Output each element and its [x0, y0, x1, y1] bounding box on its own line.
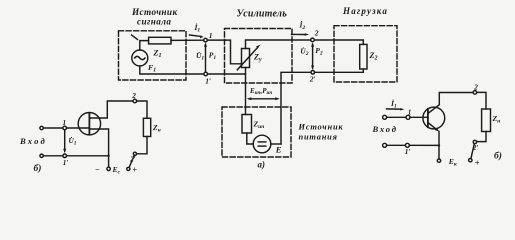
resistor Zн (left) [143, 118, 150, 136]
node 2 [473, 91, 477, 95]
Ek terminal [437, 159, 440, 162]
wires inside supply [247, 133, 253, 144]
svg-text:Вход: Вход [372, 124, 398, 134]
current I1 dash-dot arrow [194, 22, 201, 34]
resistor Zн (right) [482, 109, 491, 132]
signal source dashed box [119, 31, 187, 80]
label: Источник питания [298, 123, 344, 142]
U1 arrow down [64, 130, 66, 151]
svg-text:+: + [475, 159, 480, 168]
svg-text:Нагрузка: Нагрузка [342, 6, 388, 16]
node 1 [63, 126, 67, 130]
-Ec terminal [107, 167, 110, 170]
wires to load resistor [314, 40, 363, 44]
node 2 [133, 99, 137, 103]
node 1 [406, 115, 410, 119]
node 2' [473, 140, 476, 143]
svg-text:1: 1 [63, 119, 67, 127]
resistor Zип [242, 115, 252, 134]
bottom rail to junction [67, 155, 109, 157]
base wire [410, 116, 428, 118]
load dashed box [334, 26, 397, 82]
label б) [494, 151, 502, 162]
wire node2 to Zн [477, 92, 486, 109]
power supply dashed box [222, 107, 291, 157]
label: Усилитель [237, 9, 288, 20]
node 1' [63, 154, 67, 158]
svg-text:Вход: Вход [19, 136, 47, 146]
FET transistor [78, 113, 100, 135]
svg-text:а): а) [258, 160, 266, 170]
current I1 dash-dot arrow [390, 98, 397, 110]
gate wire [67, 127, 89, 129]
svg-text:2: 2 [473, 83, 478, 91]
wire: source top to rail [140, 41, 149, 50]
node 2 [311, 38, 315, 42]
svg-text:б): б) [494, 151, 502, 162]
wire: source bottom rail [140, 66, 204, 74]
input terminal bottom [40, 154, 43, 157]
svg-text:+: + [132, 166, 137, 175]
node 1' [204, 72, 208, 76]
AC source F1 [132, 50, 148, 66]
label Вход [19, 136, 47, 146]
svg-text:2′: 2′ [309, 75, 316, 84]
wire node2 to Zн [137, 101, 147, 118]
input terminal top [383, 115, 387, 119]
BJT transistor Q [423, 107, 445, 129]
svg-text:1′: 1′ [63, 159, 69, 167]
label: Источник сигнала [131, 7, 178, 26]
wire: resistor to node 1 [171, 39, 204, 41]
wire: Zy top to output rail to node 2 [246, 40, 311, 49]
DC source E [253, 135, 271, 153]
amplifier dashed box [225, 29, 293, 84]
svg-text:Усилитель: Усилитель [237, 9, 288, 20]
label a) [258, 160, 266, 170]
svg-text:сигнала: сигнала [137, 16, 171, 26]
svg-text:Е: Е [275, 145, 282, 155]
svg-text:−: − [95, 165, 100, 174]
emitter with arrow [428, 123, 438, 131]
wire node2' to + terminal [471, 144, 474, 159]
input terminal bottom [383, 143, 387, 147]
svg-text:1′: 1′ [205, 77, 211, 86]
resistor Z2 [360, 44, 367, 69]
drain wire to node 2 [89, 101, 133, 118]
node 1' [405, 143, 409, 147]
node 1 [204, 38, 208, 42]
dimension arrow between supply wires [249, 98, 278, 100]
svg-text:питания: питания [299, 133, 338, 142]
label б) [34, 163, 42, 174]
svg-text:Источник: Источник [298, 123, 344, 132]
svg-text:1: 1 [408, 108, 412, 116]
wire: node1 into amplifier (control) [207, 40, 241, 64]
svg-text:2: 2 [314, 29, 319, 38]
wire Zн bottom to node 2' [477, 132, 486, 142]
svg-text:б): б) [34, 163, 42, 174]
U2 P2 double arrow [312, 44, 314, 68]
wire: bottom rail node1' to supply wire [208, 73, 246, 75]
wire: supply right up to node 2' [281, 72, 311, 144]
label Вход [372, 124, 398, 134]
resistor Z1 [149, 37, 171, 44]
svg-text:1: 1 [209, 31, 213, 40]
collector [428, 93, 473, 114]
Eип Pип label [249, 87, 272, 96]
input terminal top [40, 126, 43, 129]
leader tick [132, 35, 138, 40]
node 2' [311, 71, 315, 75]
current I2 dash-dot arrow [299, 20, 306, 32]
label: Нагрузка [342, 6, 388, 16]
svg-text:1′: 1′ [405, 148, 411, 156]
variable impedance Zy [242, 49, 250, 68]
U1 P1 arrow between node1 and node1' [205, 45, 207, 73]
wire Zн bottom to node 2' [137, 137, 147, 154]
node 2' [133, 152, 136, 155]
svg-text:2: 2 [131, 92, 136, 100]
wire: Zy bottom down to power supply [245, 68, 247, 115]
wire node2' to + terminal [129, 155, 134, 167]
bottom rail [409, 144, 439, 146]
source wire down [89, 129, 108, 167]
